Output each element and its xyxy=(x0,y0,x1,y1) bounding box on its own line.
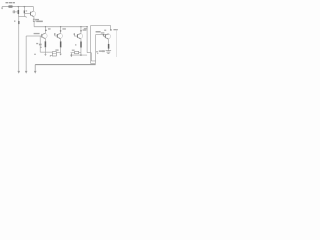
transistor Q2 xyxy=(42,33,47,39)
wire Q3 collector feed xyxy=(60,27,62,34)
label right of output tap xyxy=(113,29,117,30)
wire long left vertical xyxy=(18,17,20,71)
wire Q4 base xyxy=(74,35,77,36)
arrow below node xyxy=(71,56,73,57)
wire Q2 base xyxy=(26,35,42,37)
wire lower horizontal to right xyxy=(71,54,87,56)
wire below Q2 resistor xyxy=(44,47,46,54)
wire top input xyxy=(2,6,33,8)
wire Q1 emitter down xyxy=(33,17,35,20)
wire collector loop vertical xyxy=(95,34,97,63)
label above rail line2 xyxy=(36,21,43,23)
wire mid horizontal xyxy=(18,16,26,18)
wire second vertical xyxy=(25,17,27,71)
resistor box series stage4 xyxy=(75,51,79,53)
arrow test point stage2 xyxy=(44,54,46,56)
label stage4 tap xyxy=(83,29,87,30)
node Q2 collector tap xyxy=(45,30,47,32)
node lower junction xyxy=(71,54,73,56)
transistor Q4 xyxy=(77,33,82,39)
node rail stage4 xyxy=(80,26,81,27)
resistor Q5 emitter xyxy=(108,44,110,49)
node Q4 collector tap xyxy=(80,30,82,32)
wire ground bus xyxy=(35,64,95,66)
arrow terminal bus xyxy=(34,71,37,74)
meter box M1 xyxy=(52,52,56,56)
node B xyxy=(24,6,26,8)
label input voltage xyxy=(6,2,15,3)
wire drop left xyxy=(17,7,19,11)
transistor Q3 xyxy=(57,33,62,39)
node below loop xyxy=(96,51,97,52)
node A xyxy=(18,6,20,8)
arrow terminal left1 xyxy=(17,71,20,74)
label left of ground xyxy=(102,50,105,52)
node Q3 collector tap xyxy=(60,30,62,32)
label small xyxy=(26,10,28,11)
wire stub below-left of box xyxy=(50,55,52,56)
wire loop bottom xyxy=(91,63,96,65)
wire supply rail xyxy=(34,26,87,28)
wire Q3 emitter xyxy=(60,39,62,42)
capacitor C4 label xyxy=(36,43,38,44)
label left of feed vertical xyxy=(84,28,88,29)
label above Q2 base xyxy=(34,33,40,34)
wire Q5 collector feed xyxy=(96,33,109,35)
faint fold line xyxy=(116,30,118,58)
wire drop to lower bus stage4 xyxy=(70,53,72,55)
resistor R1 xyxy=(9,6,12,8)
capacitor C1 xyxy=(13,10,18,13)
label above box2 xyxy=(72,50,75,51)
wire drop right xyxy=(23,7,25,11)
label stage3 tap xyxy=(62,28,66,29)
wire Q1 collector xyxy=(32,7,34,12)
node rail stage2 xyxy=(45,26,46,27)
resistor R2 xyxy=(18,21,20,24)
capacitor C2 polarized body xyxy=(18,10,20,14)
wire Q5 base xyxy=(103,35,105,38)
arrow terminal left2 xyxy=(25,71,28,74)
wire step down1 xyxy=(90,53,92,61)
label inside box line2 xyxy=(101,32,105,33)
wire emitter bottom stage2 xyxy=(40,51,52,53)
wire loop left vertical xyxy=(90,25,92,63)
wire to rail xyxy=(33,22,35,27)
node rail stage3 xyxy=(60,26,61,27)
coupling capacitor C7 xyxy=(103,34,104,35)
label R emitter stage4 xyxy=(75,44,76,45)
arrow test point stage3 xyxy=(59,54,61,56)
wire right feed vertical xyxy=(86,27,88,53)
label inside box top xyxy=(96,31,101,33)
node stage4 emitter bottom xyxy=(80,54,82,56)
wire Q3 base xyxy=(55,35,58,36)
label R emitter stage2 xyxy=(40,47,41,48)
input terminal arrow xyxy=(1,7,3,10)
coupling capacitor C5 xyxy=(54,33,55,34)
wire Q4 emitter xyxy=(80,39,82,42)
wire into box stage4 xyxy=(71,52,81,54)
wire Q5 collector link xyxy=(108,33,110,36)
emitter component box xyxy=(33,19,35,22)
label above rail line1 xyxy=(36,19,40,20)
wire Q5 emitter to ground xyxy=(108,49,110,51)
resistor Q4 emitter xyxy=(80,42,82,48)
wire box to stage3 xyxy=(56,51,60,53)
wire Q2 collector feed xyxy=(44,27,46,34)
wire Q2 emitter xyxy=(44,39,46,42)
arrow below node right xyxy=(97,53,99,54)
label near top corner xyxy=(104,30,106,31)
wire below small resistor xyxy=(23,13,25,16)
wire below Q4 resistor xyxy=(80,48,82,56)
wire step right2 xyxy=(91,60,95,62)
label R2 xyxy=(14,21,15,22)
ground xyxy=(106,51,112,54)
transistor Q5 xyxy=(105,34,110,40)
transistor Q1 xyxy=(24,11,35,16)
label near bus corner xyxy=(34,54,36,55)
capacitor C4 xyxy=(39,36,42,52)
resistor Q3 emitter xyxy=(60,41,62,47)
node output tap xyxy=(110,29,112,31)
resistor Q2 emitter xyxy=(45,41,47,47)
wire loop right drop xyxy=(110,25,112,30)
meter box midline xyxy=(52,53,56,55)
coupling capacitor C6 xyxy=(74,33,75,34)
label stage2 tap xyxy=(48,28,51,29)
label above box M1 xyxy=(55,49,58,50)
wire step right1 xyxy=(87,52,91,54)
resistor body small xyxy=(24,10,25,13)
wire Q5 emitter xyxy=(108,39,110,44)
label near node right xyxy=(99,50,104,52)
wire Q4 collector feed xyxy=(80,27,82,34)
wire below C2 xyxy=(17,14,19,17)
wire loop top xyxy=(91,24,111,26)
wire bus left drop xyxy=(34,65,36,71)
wire below Q3 resistor xyxy=(60,47,62,53)
node rail end xyxy=(86,26,87,27)
